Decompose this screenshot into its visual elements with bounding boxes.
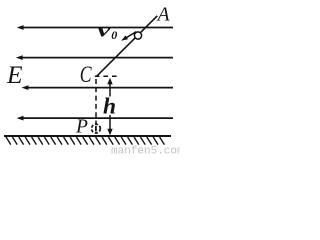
svg-text:0: 0: [111, 28, 117, 42]
svg-text:h: h: [103, 94, 116, 120]
trajectory line A-C: [97, 16, 158, 76]
field line 3: [22, 85, 174, 90]
ground line: [4, 135, 171, 137]
field line 4: [17, 116, 173, 121]
field line 1: [17, 25, 173, 30]
ground hatching: [6, 137, 164, 145]
velocity arrow v0: [121, 32, 136, 41]
dashed vertical trajectory C-P: [95, 79, 97, 126]
label h background: [103, 97, 117, 116]
dashed horizontal at C: [95, 75, 118, 77]
svg-text:P: P: [75, 117, 88, 138]
dimension line h lower arrow: [107, 129, 112, 136]
svg-text:C: C: [80, 62, 92, 87]
particle circle on trajectory: [134, 32, 141, 39]
dimension line h upper arrow: [107, 78, 112, 133]
svg-text:manfen5.com: manfen5.com: [111, 146, 180, 157]
dashed circle at P: [92, 124, 101, 133]
svg-text:v: v: [97, 20, 112, 42]
particle dash inside P circle: [95, 126, 97, 131]
svg-text:E: E: [6, 60, 23, 89]
field line 2: [16, 55, 173, 60]
svg-text:A: A: [156, 4, 170, 25]
